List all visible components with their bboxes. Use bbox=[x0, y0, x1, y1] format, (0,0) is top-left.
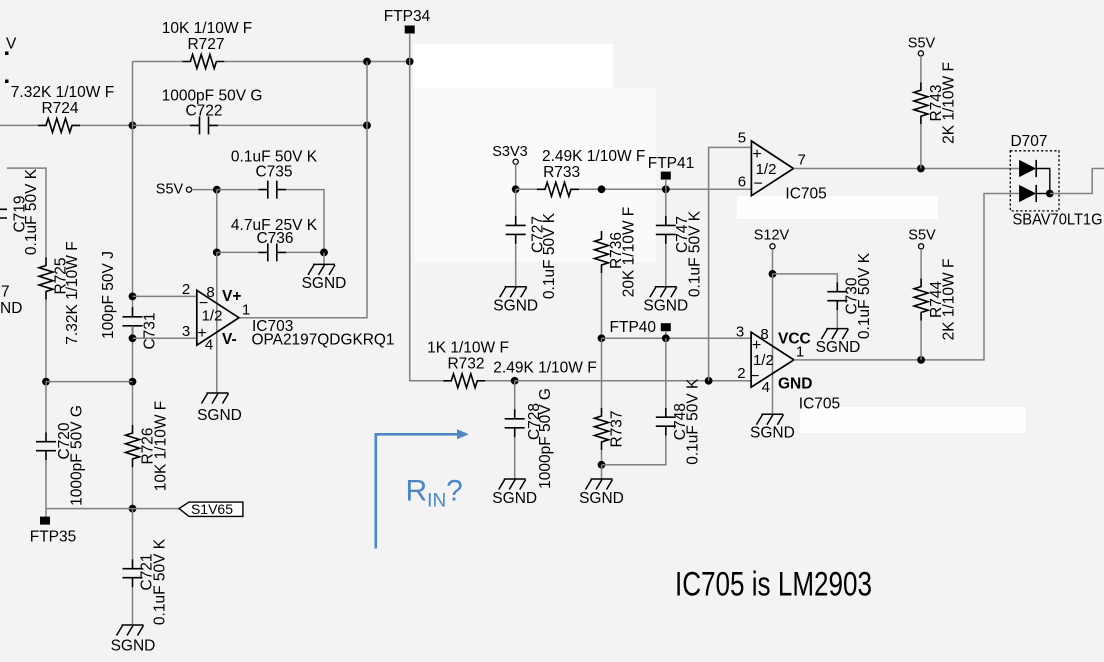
net circle S3V3 bbox=[513, 159, 518, 164]
svg-text:6: 6 bbox=[738, 173, 746, 190]
label IC705 lower bbox=[799, 396, 840, 413]
svg-text:0.1uF 50V K: 0.1uF 50V K bbox=[541, 212, 558, 299]
junction FTP41 bbox=[662, 185, 670, 193]
svg-text:10K 1/10W F: 10K 1/10W F bbox=[153, 401, 170, 491]
svg-text:2.49K 1/10W F: 2.49K 1/10W F bbox=[542, 148, 645, 165]
capacitor C719 (clipped plates) bbox=[0, 209, 7, 218]
text SGND under R737 bbox=[579, 490, 624, 507]
wire C727 bottom bbox=[515, 244, 517, 287]
wire R744 to output bbox=[920, 321, 922, 360]
white patch top bbox=[413, 44, 613, 88]
svg-text:2: 2 bbox=[182, 281, 190, 298]
label C747 bbox=[674, 216, 691, 253]
resistor R744 bbox=[914, 279, 928, 321]
op-amp IC705 lower bbox=[751, 332, 794, 387]
svg-text:IC705 is LM2903: IC705 is LM2903 bbox=[675, 566, 872, 604]
wire C736 left bbox=[217, 251, 258, 253]
svg-text:10K 1/10W F: 10K 1/10W F bbox=[162, 20, 252, 37]
svg-text:SGND: SGND bbox=[197, 407, 242, 424]
value R725 bbox=[64, 241, 81, 344]
svg-text:SGND: SGND bbox=[579, 490, 624, 507]
value C735 bbox=[231, 148, 318, 165]
wire S12V stub bbox=[772, 249, 774, 274]
wire FTP41 stub bbox=[665, 179, 667, 189]
wire FTP35 stub bbox=[45, 509, 47, 517]
text VCC IC705 lower bbox=[778, 331, 811, 348]
wire S3V3 stub bbox=[515, 164, 517, 189]
svg-text:SBAV70LT1G: SBAV70LT1G bbox=[1013, 212, 1103, 229]
net circle S12V bbox=[770, 244, 775, 249]
value C747 bbox=[687, 210, 704, 297]
wire FTP34 vertical to R732 row bbox=[410, 62, 444, 381]
diode box D707 bbox=[1010, 151, 1059, 211]
pin 4 IC703 bbox=[205, 337, 213, 354]
ground SGND under R737 bbox=[586, 479, 613, 490]
value C731 bbox=[100, 251, 117, 339]
junction S1V65 row bbox=[129, 505, 137, 513]
svg-text:4: 4 bbox=[762, 379, 770, 396]
svg-text:1/2: 1/2 bbox=[202, 308, 223, 325]
svg-text:0.1uF 50V K: 0.1uF 50V K bbox=[23, 168, 40, 255]
wire R737 top bbox=[601, 338, 603, 408]
ground SGND under C747 bbox=[650, 287, 677, 298]
junction FTP40/C748 bbox=[662, 334, 670, 342]
svg-text:1: 1 bbox=[242, 301, 250, 318]
ground SGND under C736 bbox=[308, 264, 335, 275]
value R743 bbox=[941, 62, 958, 144]
junction S12V/C730 bbox=[769, 270, 777, 278]
wire R727 to FTP34 node bbox=[224, 61, 409, 63]
wire C730 bottom bbox=[836, 310, 838, 328]
wire S5V to node bbox=[192, 189, 217, 191]
label R724 bbox=[41, 100, 78, 117]
label R727 bbox=[187, 36, 224, 53]
clipped text 7 bbox=[1, 283, 10, 300]
junction C722/feedback bbox=[363, 122, 371, 130]
svg-text:1K 1/10W F: 1K 1/10W F bbox=[427, 339, 509, 356]
ground SGND under C730 bbox=[821, 329, 848, 340]
svg-text:FTP34: FTP34 bbox=[384, 8, 431, 25]
svg-text:D707: D707 bbox=[1010, 133, 1047, 150]
svg-text:V-: V- bbox=[222, 331, 237, 348]
resistor R727 bbox=[182, 55, 224, 69]
svg-text:VCC: VCC bbox=[778, 331, 811, 348]
label D707 bbox=[1010, 133, 1047, 150]
pin 7 IC705 upper bbox=[798, 151, 806, 168]
value R727 bbox=[162, 20, 252, 37]
diode D707 lower bbox=[1019, 185, 1036, 202]
pin 8 IC705 lower bbox=[760, 326, 768, 343]
text SGND under C747 bbox=[643, 297, 688, 314]
label R737 bbox=[608, 410, 625, 447]
text 1/2 IC705 lower bbox=[753, 352, 774, 369]
svg-text:3: 3 bbox=[182, 323, 190, 340]
clipped mark 2 bbox=[5, 80, 9, 84]
pin 5 IC705 upper bbox=[738, 130, 746, 147]
svg-text:S3V3: S3V3 bbox=[492, 144, 527, 160]
wire V+ vertical IC703 bbox=[216, 252, 218, 393]
junction R725/C720 bbox=[42, 378, 50, 386]
wire IC705 upper output bbox=[794, 168, 1020, 170]
capacitor C722 bbox=[190, 116, 218, 134]
blue leader arrow bbox=[376, 429, 469, 548]
svg-text:100pF 50V J: 100pF 50V J bbox=[100, 251, 117, 339]
junction R744/output bbox=[917, 356, 925, 364]
wire top corner to R725 bbox=[7, 168, 46, 257]
pin 2 IC703 bbox=[182, 281, 190, 298]
resistor R724 bbox=[38, 118, 80, 132]
value R736 bbox=[621, 207, 638, 297]
wire IC705 lower output bbox=[794, 194, 1019, 360]
wire C727 top bbox=[515, 189, 517, 216]
resistor R733 bbox=[537, 182, 579, 196]
text V+ IC703 bbox=[222, 288, 241, 305]
svg-text:C735: C735 bbox=[255, 163, 292, 180]
junction pin5 link bbox=[705, 377, 713, 385]
wire FTP40 row to IC705 pin3 bbox=[602, 337, 752, 339]
resistor R725 bbox=[39, 258, 53, 300]
net circle S5V left bbox=[186, 187, 191, 192]
svg-text:1000pF 50V G: 1000pF 50V G bbox=[537, 388, 554, 489]
text GND IC705 lower bbox=[778, 376, 812, 393]
wire C748 top bbox=[665, 338, 667, 407]
svg-text:7: 7 bbox=[1, 283, 10, 300]
label C735 bbox=[255, 163, 292, 180]
junction row 381 bbox=[129, 378, 137, 386]
text V- IC703 bbox=[222, 331, 237, 348]
wire R725 to node bbox=[45, 300, 47, 382]
ground SGND IC705 lower bbox=[756, 414, 783, 425]
junction C736 left bbox=[213, 249, 221, 257]
minus sign IC705 lower bbox=[750, 368, 759, 385]
clipped mark 1 bbox=[5, 52, 9, 56]
label R743 bbox=[928, 84, 945, 121]
value C720 bbox=[69, 405, 86, 506]
wire R726 bottom bbox=[132, 467, 134, 509]
pin 1 IC705 lower bbox=[796, 344, 804, 361]
ground SGND under C727 bbox=[500, 287, 527, 298]
wire feedback vertical bbox=[239, 62, 367, 318]
svg-text:3: 3 bbox=[736, 324, 744, 341]
capacitor C721 bbox=[123, 559, 143, 587]
net name S5V mid right bbox=[908, 228, 936, 244]
svg-text:SGND: SGND bbox=[302, 275, 347, 292]
wire R736 bottom bbox=[601, 273, 603, 338]
label C731 bbox=[142, 312, 159, 349]
plus sign IC705 upper bbox=[752, 146, 761, 163]
resistor R736 bbox=[595, 231, 609, 273]
wire FTP34 stub bbox=[409, 33, 411, 62]
value C727 bbox=[541, 212, 558, 299]
text 1/2 IC705 upper bbox=[756, 161, 777, 178]
wire FTP40 stub bbox=[665, 331, 667, 339]
svg-text:ND: ND bbox=[0, 300, 22, 317]
svg-text:SGND: SGND bbox=[493, 297, 538, 314]
label C727 bbox=[529, 216, 546, 253]
value C719 bbox=[23, 168, 40, 255]
svg-text:7: 7 bbox=[798, 151, 806, 168]
wire main left vertical upper bbox=[132, 62, 134, 317]
capacitor C747 bbox=[656, 216, 676, 244]
wire IC703 pin2 bbox=[133, 295, 197, 297]
svg-text:1/2: 1/2 bbox=[753, 352, 774, 369]
text SGND under C730 bbox=[816, 339, 861, 356]
junction pin3 branch bbox=[129, 334, 137, 342]
label C721 bbox=[139, 553, 156, 590]
blue text RIN? bbox=[406, 474, 463, 511]
value C730 bbox=[856, 252, 873, 339]
svg-text:R737: R737 bbox=[608, 410, 625, 447]
part OPA2197QDGKRQ1 bbox=[252, 332, 395, 349]
wire R743 to output bbox=[920, 124, 922, 168]
wire C747 top bbox=[665, 189, 667, 216]
capacitor C731 bbox=[123, 307, 143, 335]
pin 2 IC705 lower bbox=[737, 365, 745, 382]
svg-text:R733: R733 bbox=[543, 164, 580, 181]
svg-text:S5V: S5V bbox=[908, 228, 936, 244]
ground SGND IC703 bbox=[202, 393, 229, 404]
label IC705 upper bbox=[785, 186, 826, 203]
svg-text:2K 1/10W F: 2K 1/10W F bbox=[941, 62, 958, 144]
text IC705 is LM2903 bbox=[675, 566, 872, 604]
svg-text:S5V: S5V bbox=[156, 182, 184, 198]
pin 3 IC705 lower bbox=[736, 324, 744, 341]
wire C720 top bbox=[45, 382, 47, 433]
svg-text:7.32K 1/10W F: 7.32K 1/10W F bbox=[11, 84, 114, 101]
net label V (clipped) bbox=[6, 36, 17, 53]
wire D707 lower cathode bbox=[1036, 193, 1050, 195]
net name S12V bbox=[754, 228, 790, 244]
value R724 bbox=[11, 84, 114, 101]
svg-text:C736: C736 bbox=[256, 230, 293, 247]
pin 1 IC703 bbox=[242, 301, 250, 318]
wire C722 left bbox=[133, 124, 191, 126]
svg-text:2.49K 1/10W F: 2.49K 1/10W F bbox=[493, 360, 596, 377]
label FTP41 bbox=[648, 155, 695, 172]
text SGND under C727 bbox=[493, 297, 538, 314]
wire C728 top bbox=[514, 381, 516, 410]
svg-text:FTP40: FTP40 bbox=[610, 319, 657, 336]
value C722 bbox=[162, 87, 263, 104]
junction R727/feedback bbox=[363, 58, 371, 66]
wire S5V to R743 bbox=[920, 56, 922, 82]
testpoint FTP41 bbox=[661, 172, 671, 180]
label C730 bbox=[844, 277, 861, 314]
capacitor C727 bbox=[506, 216, 526, 244]
net flag S1V65 bbox=[179, 502, 243, 516]
junction R736 top bbox=[598, 185, 606, 193]
part SBAV70LT1G bbox=[1013, 212, 1103, 229]
capacitor C748 bbox=[656, 408, 676, 436]
svg-text:0.1uF 50V K: 0.1uF 50V K bbox=[687, 210, 704, 297]
white patch right of FTP34 vertical bbox=[414, 88, 656, 262]
label R733 bbox=[543, 164, 580, 181]
text SGND under C736 bbox=[302, 275, 347, 292]
wire VCC vertical IC705 lower bbox=[772, 274, 774, 414]
wire D707 cathode link bbox=[1036, 169, 1050, 194]
wire S5V vertical bbox=[216, 190, 218, 253]
svg-text:0.1uF 50V K: 0.1uF 50V K bbox=[152, 538, 169, 625]
value C736 bbox=[231, 217, 318, 234]
wire C747 bottom bbox=[665, 244, 667, 287]
label R732 bbox=[447, 355, 484, 372]
testpoint FTP34 bbox=[405, 26, 415, 34]
resistor R737 bbox=[595, 408, 609, 450]
capacitor C736 bbox=[258, 243, 286, 261]
svg-text:SGND: SGND bbox=[111, 638, 156, 655]
white patch right of lower IC705 bbox=[800, 407, 1026, 433]
resistor R726 bbox=[126, 425, 140, 467]
label C720 bbox=[56, 422, 73, 459]
capacitor C730 bbox=[827, 282, 847, 310]
value C728 bbox=[537, 388, 554, 489]
label FTP35 bbox=[30, 529, 77, 546]
label R726 bbox=[140, 427, 157, 464]
wire C735 right bbox=[286, 190, 324, 253]
svg-text:IC705: IC705 bbox=[785, 186, 826, 203]
wire R733 left bbox=[516, 188, 537, 190]
svg-text:5: 5 bbox=[738, 130, 746, 147]
op-amp IC703 bbox=[197, 290, 239, 345]
ground SGND under C721 bbox=[117, 625, 144, 636]
pin 6 IC705 upper bbox=[738, 173, 746, 190]
svg-text:C722: C722 bbox=[185, 102, 222, 119]
wire R724 to node bbox=[80, 124, 133, 126]
wire R732 row to IC705 pin2 bbox=[515, 380, 751, 382]
label IC703 bbox=[252, 318, 293, 335]
label C736 bbox=[256, 230, 293, 247]
net circle S5V top right bbox=[918, 51, 923, 56]
plus sign IC703 bbox=[197, 325, 206, 342]
junction R732/C728 bbox=[511, 377, 519, 385]
svg-text:1/2: 1/2 bbox=[756, 161, 777, 178]
wire to SGND C736 bbox=[323, 252, 325, 264]
wire left vertical to R727 bbox=[133, 61, 183, 63]
testpoint FTP40 bbox=[661, 323, 671, 331]
svg-text:FTP35: FTP35 bbox=[30, 529, 77, 546]
minus sign IC705 upper bbox=[754, 175, 763, 192]
text SGND IC705 lower bbox=[750, 425, 795, 442]
clipped text ND bbox=[0, 300, 22, 317]
text SGND under C721 bbox=[111, 638, 156, 655]
ground SGND under C728 bbox=[499, 479, 526, 490]
pin 4 IC705 lower bbox=[762, 379, 770, 396]
svg-text:20K 1/10W F: 20K 1/10W F bbox=[621, 207, 638, 297]
svg-text:SGND: SGND bbox=[643, 297, 688, 314]
wire R733 right to pin6 bbox=[579, 188, 751, 190]
svg-text:−: − bbox=[750, 368, 759, 385]
junction D707 common cathode bbox=[1046, 190, 1054, 198]
junction R724/C722/vertical bbox=[129, 122, 137, 130]
svg-text:GND: GND bbox=[778, 376, 812, 393]
svg-text:0.1uF 50V K: 0.1uF 50V K bbox=[685, 378, 702, 465]
pin 8 IC703 bbox=[206, 284, 214, 301]
wire C731 below bbox=[132, 326, 134, 425]
wire C721 top bbox=[132, 509, 134, 560]
net name S3V3 bbox=[492, 144, 527, 160]
svg-text:2: 2 bbox=[737, 365, 745, 382]
svg-text:IC705: IC705 bbox=[799, 396, 840, 413]
value R744 bbox=[941, 259, 958, 341]
svg-text:V+: V+ bbox=[222, 288, 241, 305]
junction pin2 branch bbox=[129, 293, 137, 301]
svg-text:7.32K 1/10W F: 7.32K 1/10W F bbox=[64, 241, 81, 344]
svg-text:S12V: S12V bbox=[754, 228, 790, 244]
text SGND IC703 bbox=[197, 407, 242, 424]
svg-text:S5V: S5V bbox=[908, 35, 936, 51]
wire C722 right bbox=[218, 124, 367, 126]
label C728 bbox=[526, 403, 543, 440]
net name S5V top right bbox=[908, 35, 936, 51]
label R736 bbox=[608, 232, 625, 269]
wire S1V65 row bbox=[46, 508, 179, 510]
pin 3 IC703 bbox=[182, 323, 190, 340]
wire input to R724 bbox=[0, 124, 38, 126]
wire R732 to C728 node bbox=[485, 380, 514, 382]
label FTP40 bbox=[610, 319, 657, 336]
svg-text:0.1uF 50V K: 0.1uF 50V K bbox=[856, 252, 873, 339]
net circle S5V mid right bbox=[919, 244, 924, 249]
op-amp IC705 upper bbox=[751, 141, 793, 196]
wire to C730 bbox=[773, 274, 838, 282]
wire row 381 bbox=[46, 381, 133, 383]
wire R737 to SGND bbox=[601, 465, 603, 479]
wire pin5 link bbox=[709, 147, 752, 380]
value R733 bbox=[542, 148, 645, 165]
capacitor C735 bbox=[258, 181, 286, 199]
junction S5V/C735 bbox=[213, 186, 221, 194]
wire S5V to R744 bbox=[920, 249, 922, 279]
junction FTP40 left bbox=[598, 334, 606, 342]
value R726 bbox=[153, 401, 170, 491]
label R744 bbox=[928, 281, 945, 318]
value R737 (2.49K) bbox=[493, 360, 596, 377]
wire D707 output bbox=[1050, 169, 1104, 194]
svg-text:R732: R732 bbox=[447, 355, 484, 372]
label C722 bbox=[185, 102, 222, 119]
wire C736 right bbox=[286, 251, 324, 253]
svg-text:R724: R724 bbox=[41, 100, 78, 117]
svg-text:1000pF 50V G: 1000pF 50V G bbox=[69, 405, 86, 506]
wire C735 left bbox=[217, 189, 258, 191]
wire C720 bottom bbox=[45, 460, 47, 508]
label C748 bbox=[672, 403, 689, 440]
label R725 bbox=[53, 257, 70, 294]
minus sign IC703 bbox=[199, 295, 208, 312]
capacitor C728 bbox=[505, 409, 525, 437]
label C719 bbox=[12, 195, 29, 232]
svg-text:SGND: SGND bbox=[492, 490, 537, 507]
wire R737 bottom bbox=[601, 450, 603, 465]
junction C736 right bbox=[320, 249, 328, 257]
resistor R743 bbox=[914, 82, 928, 124]
svg-text:+: + bbox=[197, 325, 206, 342]
value R732 bbox=[427, 339, 509, 356]
junction R737/C748 return bbox=[598, 461, 606, 469]
svg-text:OPA2197QDGKRQ1: OPA2197QDGKRQ1 bbox=[252, 332, 395, 349]
testpoint FTP35 bbox=[40, 517, 50, 525]
label FTP34 bbox=[384, 8, 431, 25]
junction FTP34 bbox=[406, 58, 414, 66]
wire C728 bottom bbox=[514, 437, 516, 479]
text 1/2 IC703 bbox=[202, 308, 223, 325]
wire C748 bottom to R737 node bbox=[602, 436, 666, 465]
svg-text:SGND: SGND bbox=[816, 339, 861, 356]
net name S5V left bbox=[156, 182, 184, 198]
svg-text:S1V65: S1V65 bbox=[191, 501, 233, 517]
plus sign IC705 lower bbox=[752, 337, 761, 354]
svg-text:FTP41: FTP41 bbox=[648, 155, 695, 172]
